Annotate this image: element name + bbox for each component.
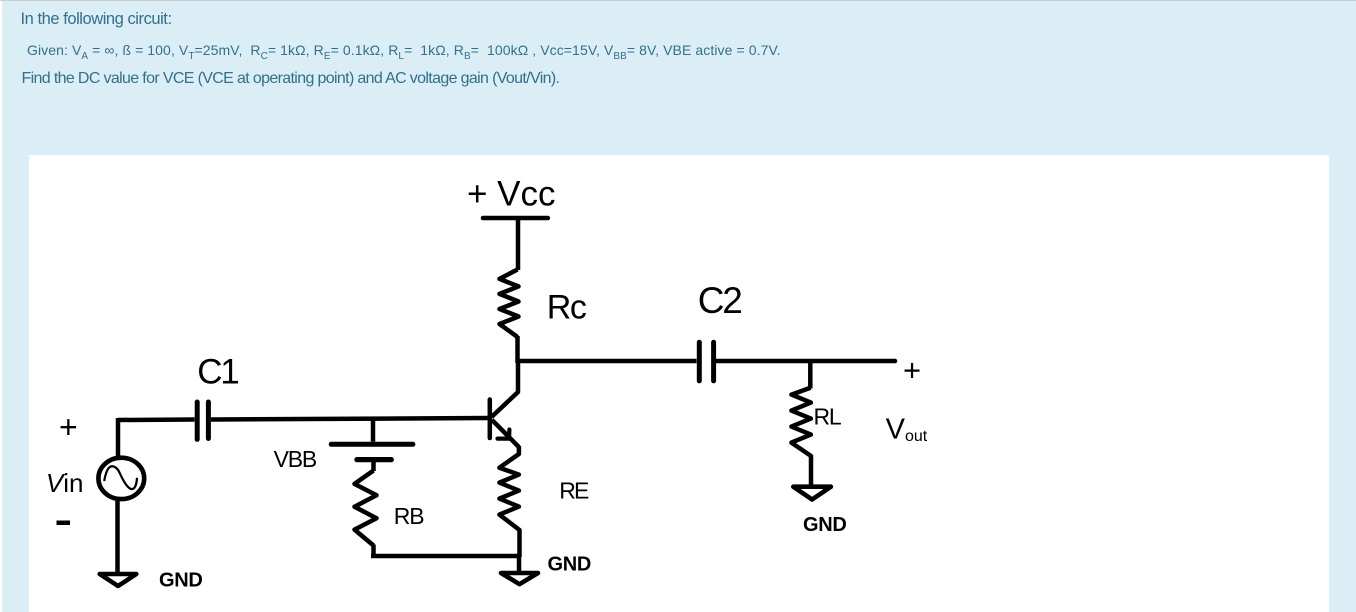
svg-text:RE: RE: [559, 477, 589, 503]
svg-text:Rc: Rc: [547, 289, 587, 327]
svg-text:GND: GND: [548, 553, 592, 575]
svg-text:+: +: [903, 352, 921, 387]
svg-text:C2: C2: [698, 280, 742, 321]
svg-text:Vin: Vin: [46, 468, 84, 498]
svg-text:V: V: [886, 414, 906, 446]
svg-text:RL: RL: [814, 403, 842, 429]
svg-text:GND: GND: [159, 569, 203, 591]
svg-text:GND: GND: [803, 514, 847, 536]
svg-text:VBB: VBB: [274, 446, 317, 472]
svg-text:+ Vcc: + Vcc: [467, 174, 556, 213]
svg-text:+: +: [59, 409, 78, 445]
svg-text:C1: C1: [197, 353, 238, 392]
svg-text:RB: RB: [394, 503, 424, 529]
svg-text:out: out: [905, 428, 928, 445]
